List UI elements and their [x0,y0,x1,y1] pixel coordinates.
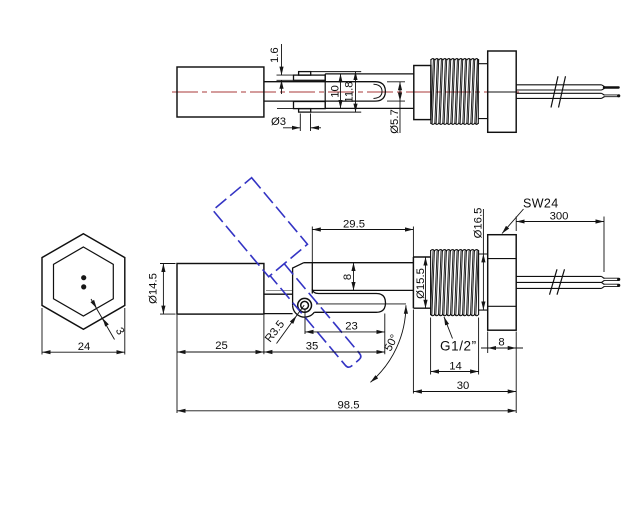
svg-text:1.6: 1.6 [269,47,281,63]
dimension 98.5 (overall) [177,315,516,413]
dimension 14 (thread length) [431,318,479,375]
float body (front view) [177,264,264,315]
arrow 3b [103,318,109,326]
object/extension lines across pin bosses [311,72,362,113]
svg-text:SW24: SW24 [523,197,559,211]
wire 1 (top view) [516,85,604,90]
svg-text:29.5: 29.5 [343,218,365,230]
svg-text:14: 14 [449,360,462,372]
neck O16.5 (front view) [479,254,488,310]
hex nut outer (end view) [42,234,125,330]
pin boss bottom (top view) [299,109,311,113]
bracket pivot lobe R3.5 [293,305,315,317]
float stem O5.7 (front view) [264,294,293,313]
arm axis reference line [316,303,406,305]
svg-text:Ø15.5: Ø15.5 [415,268,427,299]
bore inner dome arc [374,84,383,98]
leader SW24 [502,209,524,234]
wire 2 (top view) [516,93,604,98]
dimension 300 (wire length) [516,217,604,273]
dimension 8 (hex thickness) [481,332,523,354]
wire conductor ends (front view) [604,278,619,280]
dimension O3 (pin) [283,114,321,132]
stem tube O10 (top view) [325,74,414,109]
svg-text:30: 30 [457,380,470,392]
svg-text:3: 3 [113,326,127,338]
dimension 23 [305,310,385,355]
leader G1/2 [444,317,453,339]
stem / reed-switch bore O5.7 (top view) [264,82,386,101]
pivot pin outer [298,298,312,312]
dimension 35 [264,315,385,354]
dimension 10 (tube) [340,74,342,109]
red centerline (top view axis) [172,91,520,93]
wire dot 2 [81,284,86,289]
dimension O15.5 (collar) [425,257,427,308]
svg-text:G1/2”: G1/2” [440,339,477,354]
dimension 1.6 (plate thickness) [277,44,294,109]
svg-text:11.8: 11.8 [343,81,355,102]
collar O15.5 (top view) [414,66,431,120]
wires (front view) [516,276,604,288]
dimension O16.5 (neck) [479,209,486,310]
svg-text:35: 35 [306,341,319,353]
leader R3.5 [277,305,305,343]
dimension 30 [413,310,516,394]
svg-text:25: 25 [215,340,228,352]
svg-text:8: 8 [342,274,354,280]
hinge bracket top plate (top view) [294,75,326,80]
dimension O5.7 (bore) [387,82,405,133]
hinge bracket bottom plate (top view) [294,102,326,109]
angular dimension 50 deg arc [370,305,406,382]
svg-text:R3.5: R3.5 [263,319,287,345]
neck O16.5 (top view) [478,64,487,119]
hex chamfer inner (end view) [54,247,114,316]
arrow 3a [90,300,96,308]
pin boss top (top view) [299,72,311,76]
pivot pin inner [301,301,309,309]
dimension 25 [177,351,264,353]
dimension O14.5 (float dia) [160,264,176,315]
counterweight arm (front view) [312,289,385,312]
svg-text:24: 24 [78,341,91,353]
thread G1/2 (front view) [431,250,479,315]
svg-text:50°: 50° [383,333,402,354]
tilted float position (phantom, rotated 50 deg about pivot) [213,178,386,370]
svg-text:98.5: 98.5 [338,399,360,411]
dimension 29.5 [312,227,413,263]
hex nut SW24 (front view) [488,235,517,331]
dimension 11.8 (over bosses) [355,72,357,113]
hinge bracket (front view) [293,263,313,306]
svg-text:10: 10 [330,85,342,98]
svg-text:Ø14.5: Ø14.5 [148,273,160,304]
thread G1/2 (top view) [431,59,479,124]
svg-text:300: 300 [550,211,569,223]
dimension 24 (across flats) [42,308,125,355]
svg-text:8: 8 [498,337,504,349]
float body (top view) [177,67,264,117]
wire 1 conductor end [604,86,619,88]
hex nut SW24 (top view) [488,51,517,132]
stem tube O8 (front view) [304,263,414,291]
dimension 8 (tube) [353,263,355,291]
wire dot 1 [81,275,86,280]
collar O15.5 (front view) [413,257,430,308]
svg-text:Ø16.5: Ø16.5 [472,208,484,239]
wire 2 conductor end [604,95,619,97]
wire break marks (top view) [551,76,566,107]
svg-text:Ø5.7: Ø5.7 [389,109,401,134]
svg-text:Ø3: Ø3 [271,116,286,128]
wire break marks (front view) [550,269,565,294]
hex nut mid edge (top view) [488,91,517,93]
hidden tube edge [266,289,292,291]
hex nut corner edges (front view) [488,259,517,307]
svg-text:23: 23 [345,321,358,333]
leader 3 (wall thickness) [91,299,115,340]
